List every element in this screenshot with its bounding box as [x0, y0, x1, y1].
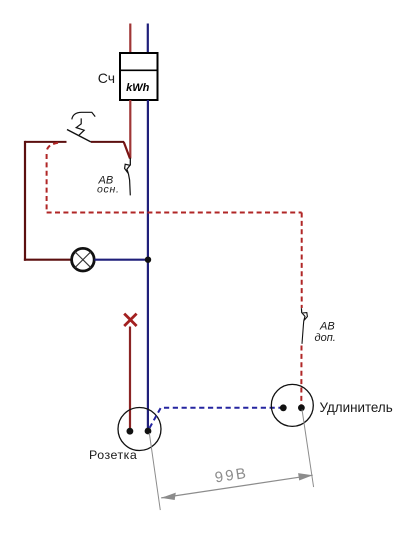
wire blue lamp to junction [94, 259, 148, 261]
wire dark red breaker left segment [25, 141, 67, 143]
socket XS1 circle [118, 408, 161, 451]
dashed red bypass right vertical lower [300, 346, 302, 408]
breaker АВ осн. release zigzag [76, 118, 84, 135]
dimension extension line left [149, 433, 160, 510]
svg-text:Розетка: Розетка [89, 448, 137, 462]
wire red phase from supply to meter [129, 24, 131, 54]
dimension arrowhead left [161, 493, 176, 500]
dashed blue extension cord [150, 408, 284, 428]
svg-text:Сч: Сч [98, 70, 115, 86]
socket XS1 left pin dot [126, 428, 133, 435]
extension XS2 circle [271, 384, 313, 426]
wire dark red breaker feed diagonal [124, 142, 130, 159]
breaker pole2 lower line [128, 174, 130, 196]
node junction dot [145, 257, 151, 263]
X damage mark [124, 314, 136, 326]
dashed red bypass right vertical upper [301, 213, 303, 309]
dimension extension line right [302, 410, 314, 488]
socket XS1 right pin dot [145, 428, 152, 435]
breaker АВ осн. blade [67, 130, 91, 142]
dimension arrowhead right [298, 473, 313, 480]
dashed red bypass left vertical [46, 154, 48, 212]
svg-text:Удлинитель: Удлинитель [320, 400, 393, 415]
extension XS2 right pin dot [298, 404, 305, 411]
meter divider line [120, 69, 158, 71]
wire dark red loop bottom to lamp [24, 259, 72, 261]
wire dark red loop left vertical [24, 141, 26, 261]
dashed red bypass horizontal [47, 212, 302, 214]
breaker АВ доп. lower line [302, 321, 304, 344]
wire blue neutral from supply to meter [147, 24, 149, 54]
breaker АВ осн. release hook [72, 112, 95, 119]
wire dark red breaker output right segment [91, 141, 124, 143]
wire red meter output down [129, 100, 131, 159]
wire red damaged drop to socket [129, 327, 131, 431]
svg-text:АВ: АВ [319, 321, 335, 333]
dashed red bypass start curve [47, 143, 58, 152]
svg-text:осн.: осн. [97, 183, 120, 195]
meter U1 box [120, 53, 158, 100]
breaker АВ доп. flag contact [302, 313, 307, 321]
breaker pole2 upper stub [129, 158, 131, 165]
breaker pole2 flag contact [125, 164, 130, 173]
extension XS2 left pin dot [280, 404, 287, 411]
lamp EL1 cross [75, 252, 91, 268]
lamp EL1 circle [72, 248, 95, 271]
breaker АВ доп. upper stub [300, 308, 302, 312]
svg-text:kWh: kWh [126, 82, 150, 94]
wire blue meter output down to socket [147, 100, 149, 431]
dimension line 99В [161, 475, 313, 498]
svg-text:доп.: доп. [315, 332, 336, 344]
